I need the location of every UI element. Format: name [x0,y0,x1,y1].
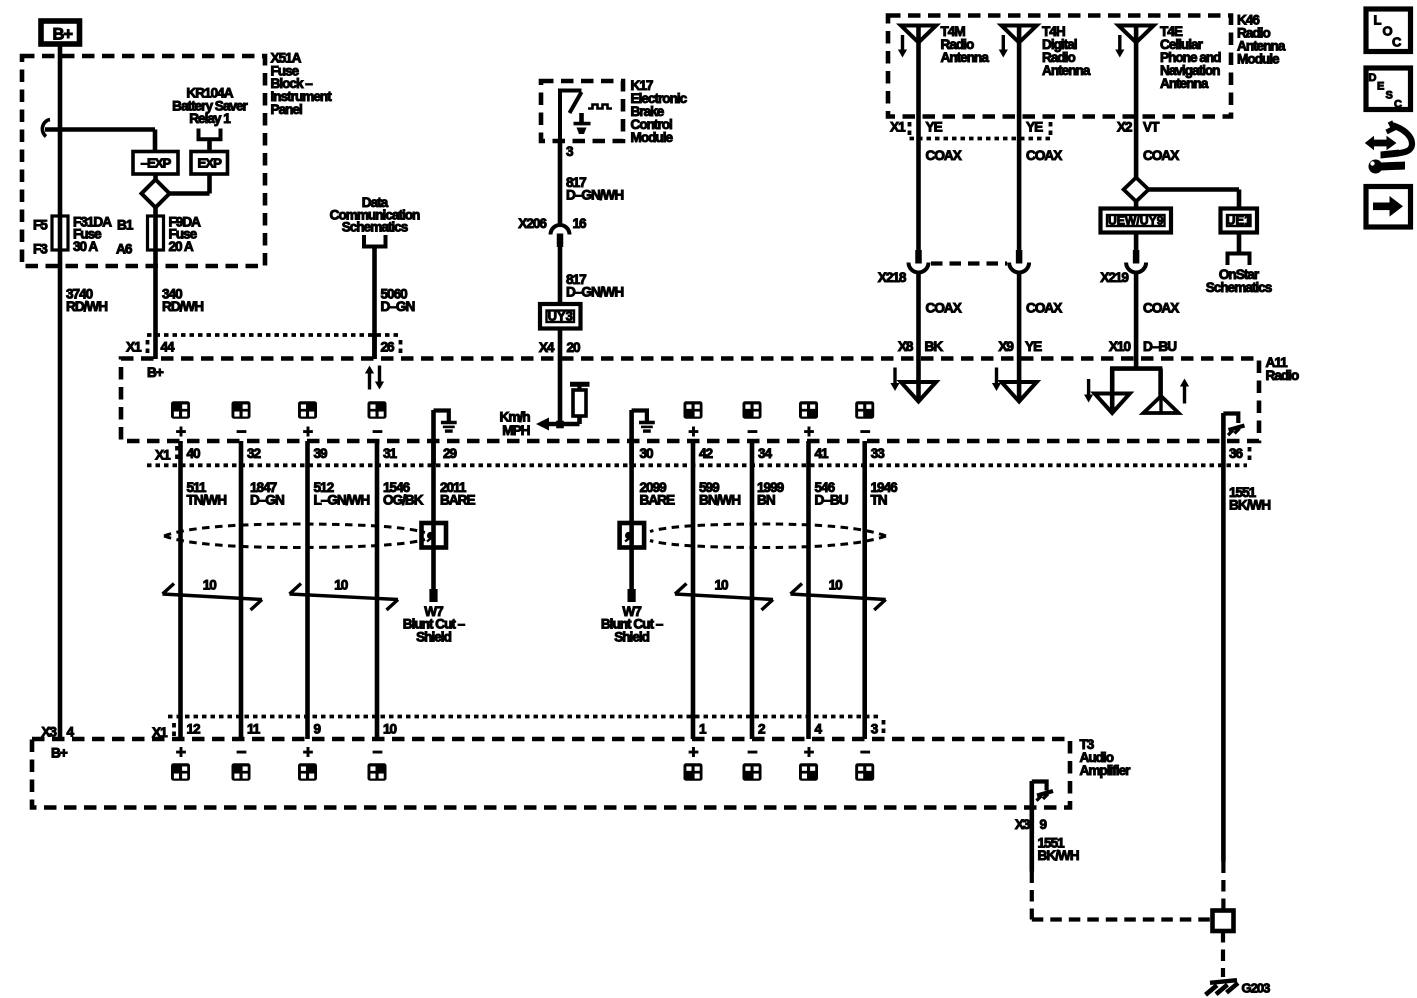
svg-text:B+: B+ [51,746,68,761]
radio A11 dashed box [121,359,1259,442]
svg-text:−: − [747,742,757,762]
module K46 dashed box [888,16,1231,117]
svg-text:X3: X3 [1015,817,1031,832]
relay KR104A coil bracket [199,129,221,140]
radio coax3 up arrow [1183,385,1186,404]
wire coax2 to radio [1017,273,1022,360]
svg-text:X1: X1 [152,725,168,740]
svg-text:−: − [236,421,246,441]
svg-text:X206: X206 [518,216,547,231]
speaker wire x180.5 [178,441,183,739]
speaker wire x241.0 [239,441,244,739]
svg-text:Schematics: Schematics [342,220,408,235]
svg-text:+: + [176,421,186,441]
antenna T4E symbol [1119,26,1154,43]
svg-text:YE: YE [1026,120,1043,135]
relay contact box -EXP [133,152,178,175]
wire UY3 to radio pin X4-20 [558,329,563,360]
svg-text:BN/WH: BN/WH [699,492,740,507]
svg-text:X2: X2 [1117,120,1133,135]
svg-text:+: + [804,742,814,762]
radio case ground pin36 [1221,413,1226,465]
K17 internal switch [560,91,582,142]
radio speed signal branch [558,359,563,426]
speaker wire x808.5 [806,441,811,739]
svg-text:Module: Module [631,130,674,145]
svg-text:10: 10 [383,722,397,737]
svg-text:20: 20 [567,340,581,355]
svg-text:30 A: 30 A [73,239,98,254]
svg-text:31: 31 [383,446,398,461]
shield splice box right [620,523,645,548]
wire 5060 D-GN [372,247,377,360]
svg-text:–EXP: –EXP [141,156,172,171]
option box UEW/UY9 [1101,209,1172,233]
svg-text:COAX: COAX [1026,301,1062,316]
shield blunt cut right [629,548,634,590]
svg-text:COAX: COAX [926,148,962,163]
svg-text:+: + [303,742,313,762]
speaker wire x693.0 [691,441,696,739]
svg-text:X4: X4 [539,340,555,355]
legend arrow box [1366,187,1411,228]
svg-text:29: 29 [443,446,458,461]
radio coax1 arrow [893,368,896,386]
radio speaker pin 42 icon [684,401,703,419]
svg-text:+: + [176,742,186,762]
legend DESC box [1366,68,1411,110]
svg-text:+: + [688,421,698,441]
K17 internal coil squiggle [588,105,612,109]
svg-text:Module: Module [1237,51,1280,66]
svg-text:BK/WH: BK/WH [1038,848,1079,863]
speaker wire x752.0 [750,441,755,739]
svg-text:33: 33 [871,446,886,461]
wire coax3 to radio [1134,273,1139,360]
svg-text:+: + [688,742,698,762]
svg-text:44: 44 [161,340,176,355]
shield blunt cut left [431,548,436,590]
svg-text:Shield: Shield [614,629,649,644]
svg-text:D: D [1369,72,1377,84]
radio top connector X1 dotted strip [147,333,399,337]
twisted pair ellipse left [164,524,425,536]
radio speaker pin 40 icon [171,401,190,419]
svg-text:Schematics: Schematics [1206,280,1272,295]
svg-text:C: C [1394,99,1402,111]
svg-text:D–GN: D–GN [250,492,284,507]
svg-text:Amplifier: Amplifier [1080,763,1132,778]
svg-text:X1: X1 [155,448,171,463]
wire 1551 amp dashed [1030,872,1034,920]
svg-text:41: 41 [815,446,830,461]
amplifier T3 dashed box [32,739,1070,808]
svg-text:X3: X3 [41,725,57,740]
svg-text:Antenna: Antenna [1042,63,1091,78]
svg-text:B+: B+ [53,26,73,44]
svg-text:39: 39 [314,446,329,461]
svg-text:TN/WH: TN/WH [187,492,227,507]
wire coax1 to radio [916,273,921,360]
option box UY3 [540,304,581,329]
svg-text:D–BU: D–BU [815,492,848,507]
svg-text:E: E [1377,81,1384,93]
wire 1551 right dashed [1221,862,1225,911]
svg-text:10: 10 [829,578,843,593]
ground G203 symbol [1210,980,1237,983]
antenna T4M arrow [901,35,904,52]
wire 340 RD/WH vertical [153,217,158,359]
svg-text:10: 10 [334,578,348,593]
radio coax3 down arrow [1087,379,1090,397]
radio ground pin 29 [431,410,436,465]
fuse block X51A dashed box [22,56,265,266]
svg-text:30: 30 [640,446,654,461]
svg-text:BK: BK [925,339,944,354]
svg-text:COAX: COAX [926,301,962,316]
option box UE1 [1221,209,1258,233]
svg-text:MPH: MPH [502,423,529,438]
connector X218 wire2 [1016,250,1023,264]
wire pin26 stub [372,335,377,359]
svg-text:−: − [747,421,757,441]
svg-text:S: S [1386,90,1393,102]
wire 817 lower [558,247,563,304]
speaker wire x377.0 [375,441,380,739]
legend route icon [1365,136,1397,150]
shield wire left upper [431,441,436,523]
fuse F9DA 20A [148,216,164,250]
connector X218 wire1 [915,250,922,264]
speaker wire x307.5 [305,441,310,739]
svg-text:32: 32 [247,446,262,461]
svg-text:L: L [1374,13,1382,28]
svg-text:EXP: EXP [198,156,223,171]
module K17 dashed box [541,81,623,141]
svg-text:B+: B+ [147,365,164,380]
antenna T4H arrow [1002,35,1005,52]
svg-text:YE: YE [1025,339,1042,354]
antenna T4M symbol [901,26,936,43]
svg-text:12: 12 [187,722,202,737]
radio speaker pin 34 icon [743,401,762,419]
wire UE1 to OnStar [1237,233,1242,253]
svg-text:X219: X219 [1100,270,1129,285]
svg-text:BARE: BARE [640,492,675,507]
radio speaker pin 32 icon [232,401,251,419]
svg-text:VT: VT [1143,120,1160,135]
svg-text:UY3: UY3 [548,308,573,323]
radio speaker pin 39 icon [298,401,317,419]
svg-text:16: 16 [573,216,588,231]
svg-text:RD/WH: RD/WH [162,299,203,314]
data communication bracket [364,235,386,247]
twist marker 10 pair3 [675,594,773,600]
svg-text:36: 36 [1229,446,1244,461]
svg-text:11: 11 [247,722,261,737]
svg-text:D–GN: D–GN [381,299,415,314]
radio speaker pin 41 icon [799,401,818,419]
radio coax1 termination [916,359,921,400]
wire B+ vertical 3740 RD/WH [58,44,63,739]
svg-text:10: 10 [203,578,217,593]
wire EXP to diamond [207,174,212,194]
svg-text:40: 40 [187,446,201,461]
radio coax2 termination [1017,359,1022,400]
wire splice to G203 dashed [1221,931,1225,977]
svg-text:G203: G203 [1242,981,1271,996]
svg-text:COAX: COAX [1143,148,1179,163]
shield wire right upper [629,441,634,523]
antenna T4H symbol [1002,26,1037,43]
OnStar bracket [1228,254,1250,266]
wire 817 upper with pin 3 [558,141,563,226]
wire 1551 right solid [1221,465,1226,862]
svg-text:YE: YE [926,120,943,135]
svg-text:BK/WH: BK/WH [1229,498,1270,513]
svg-text:TN: TN [871,492,887,507]
svg-text:D–GN/WH: D–GN/WH [566,187,623,202]
B+ battery power symbol [41,21,80,44]
svg-text:BN: BN [757,492,775,507]
svg-text:UE1: UE1 [1226,213,1251,228]
radio serial data arrows [368,372,371,390]
wire diamond to UE1 [1147,187,1239,192]
svg-text:A6: A6 [116,242,133,257]
radio coax2 arrow [995,368,998,386]
twist marker 10 pair1 [163,594,263,600]
speaker wire x864.7 [862,441,867,739]
svg-text:F5: F5 [33,218,48,233]
svg-text:−: − [372,742,382,762]
svg-text:+: + [804,421,814,441]
svg-text:X218: X218 [878,270,907,285]
svg-text:RD/WH: RD/WH [66,299,107,314]
svg-text:Relay 1: Relay 1 [189,111,231,126]
svg-text:X10: X10 [1109,339,1131,354]
svg-text:−: − [860,742,870,762]
svg-text:BARE: BARE [440,492,475,507]
splice diamond fuse feed [142,180,170,208]
radio speaker pin 31 icon [368,401,387,419]
shield splice box left [422,523,447,548]
svg-text:D–BU: D–BU [1143,339,1176,354]
svg-text:Antenna: Antenna [941,50,990,65]
connector X219 [1133,250,1140,264]
svg-text:D–GN/WH: D–GN/WH [566,284,623,299]
K17 internal ground [579,113,584,123]
svg-text:X9: X9 [998,339,1014,354]
svg-text:UEW/UY9: UEW/UY9 [1108,214,1164,228]
wire diamond to UEW [1134,201,1139,210]
wire UEW to X219 [1134,233,1139,252]
svg-text:O: O [1383,24,1393,39]
radio coax3 split [1134,359,1139,371]
connector X218 dashed link [931,261,1007,265]
svg-text:−: − [236,742,246,762]
legend LOC box [1366,9,1411,52]
svg-text:OG/BK: OG/BK [383,492,424,507]
svg-text:L–GN/WH: L–GN/WH [314,492,370,507]
svg-text:34: 34 [758,446,773,461]
radio speaker pin 33 icon [855,401,874,419]
svg-text:B1: B1 [117,218,134,233]
wire branch B+ to -EXP with hook [42,120,50,137]
svg-text:Panel: Panel [271,102,302,117]
splice diamond antenna [1124,178,1149,202]
svg-text:F3: F3 [33,242,48,257]
twist marker 10 pair2 [290,594,399,600]
antenna T4E arrow [1118,35,1121,52]
twist marker 10 pair4 [791,594,886,600]
relay coil box EXP [191,152,228,175]
svg-text:X1: X1 [126,340,142,355]
svg-text:+: + [303,421,313,441]
svg-text:42: 42 [699,446,714,461]
ground splice box [1213,911,1234,932]
twisted pair ellipse right [650,524,886,536]
svg-text:COAX: COAX [1143,301,1179,316]
fuse F31DA 30A [52,216,68,250]
svg-text:−: − [860,421,870,441]
svg-text:Antenna: Antenna [1160,76,1209,91]
connector X1 antenna dotted strip [908,122,912,137]
svg-text:COAX: COAX [1026,148,1062,163]
svg-text:Shield: Shield [416,629,451,644]
svg-text:−: − [372,421,382,441]
radio ground pin 30 [629,410,634,465]
connector X206 pin 16 [551,225,570,235]
svg-text:Radio: Radio [1266,368,1299,383]
svg-text:10: 10 [715,578,729,593]
svg-text:20 A: 20 A [169,239,194,254]
svg-text:X1: X1 [890,120,906,135]
svg-text:X8: X8 [898,339,914,354]
svg-text:26: 26 [381,340,396,355]
amp case ground X3-9 [1030,781,1035,872]
